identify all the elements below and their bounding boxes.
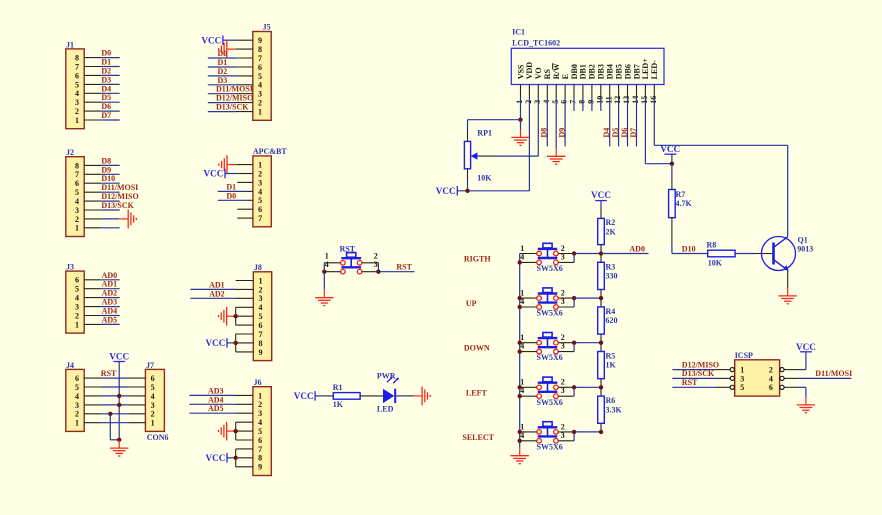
svg-text:2: 2	[769, 366, 773, 375]
svg-text:6: 6	[258, 63, 262, 72]
svg-text:D13/SCK: D13/SCK	[101, 201, 134, 210]
wire J3 pin 6 net AD0	[84, 279, 120, 281]
wire SW1 right rail	[573, 254, 575, 263]
net label D2	[218, 67, 228, 76]
APC&BT pin numbers	[258, 161, 262, 224]
junction ladder row 5	[599, 430, 603, 434]
ground below keypad	[511, 448, 529, 464]
connector ICSP	[735, 351, 780, 396]
svg-text:3: 3	[75, 98, 79, 107]
rotated net label D5 on IC1 pin 12	[611, 128, 620, 138]
power VCC above R7	[660, 144, 680, 164]
svg-text:R3: R3	[606, 262, 616, 271]
resistor R2	[598, 218, 605, 244]
junction J6 pin 5	[234, 429, 238, 433]
connector J5	[253, 23, 271, 121]
resistor R7	[669, 190, 676, 218]
wire J8 pins 4-6 bracket to ground	[236, 307, 254, 325]
svg-text:PWR: PWR	[377, 371, 396, 380]
net label AD0	[629, 244, 645, 253]
net label D6	[101, 102, 111, 111]
wire J2 pin 6 net D10	[84, 182, 120, 184]
svg-text:DOWN: DOWN	[464, 344, 490, 353]
junction SW3 left bottom	[518, 349, 522, 353]
svg-text:7: 7	[258, 214, 262, 223]
net label D0	[101, 49, 111, 58]
junction SW4 left top	[518, 385, 522, 389]
svg-text:5: 5	[75, 188, 79, 197]
wire SW1 to ladder	[574, 253, 601, 255]
wire J1 pin 1 net D7	[84, 119, 120, 121]
svg-text:RP1: RP1	[477, 129, 492, 138]
svg-text:D6: D6	[101, 102, 111, 111]
svg-text:1: 1	[258, 391, 262, 400]
resistor R1	[333, 393, 360, 400]
ground below Q1	[779, 288, 797, 304]
svg-text:LCD_TC1602: LCD_TC1602	[512, 38, 560, 47]
SW2 pin numbers	[520, 289, 565, 307]
svg-text:D9: D9	[101, 165, 111, 174]
svg-text:SW5X6: SW5X6	[537, 398, 563, 407]
wire SW3 to ladder	[574, 342, 601, 344]
svg-text:2K: 2K	[606, 227, 617, 236]
svg-text:AD3: AD3	[208, 386, 224, 395]
svg-text:10: 10	[595, 96, 604, 104]
net label D3	[101, 75, 111, 84]
junction SW2 left top	[518, 296, 522, 300]
ICSP pin circles	[730, 368, 784, 390]
svg-text:R/W: R/W	[552, 63, 561, 79]
rotated net label D7 on IC1 pin 14	[629, 128, 638, 138]
label R3	[606, 262, 616, 271]
wire SW2 right rail	[573, 298, 575, 307]
pushbutton SW3 DOWN SW5X6	[520, 333, 574, 354]
wire APC&BT pin 7 stub	[237, 217, 253, 219]
svg-text:RS: RS	[543, 69, 552, 80]
net label D11/MOSI	[101, 183, 138, 192]
wire J2 pin 3 net D13/SCK	[84, 209, 120, 211]
svg-text:SW5X6: SW5X6	[537, 309, 563, 318]
junction J8 pin 5	[234, 314, 238, 318]
svg-text:ICSP: ICSP	[735, 351, 753, 360]
junction ladder row 2	[599, 296, 603, 300]
svg-text:3: 3	[374, 260, 378, 269]
IC U1 LCD_TC1602	[511, 28, 664, 85]
wire ladder segment 3	[600, 343, 602, 388]
J7 pin numbers	[151, 374, 155, 428]
svg-text:J8: J8	[254, 263, 262, 272]
svg-text:14: 14	[631, 96, 640, 104]
wire ladder segment 2	[600, 298, 602, 343]
svg-text:4: 4	[258, 418, 262, 427]
svg-text:VO: VO	[534, 67, 543, 79]
wire ICSP pin 3 net D13/SCK	[672, 377, 730, 379]
svg-text:APC&BT: APC&BT	[253, 147, 287, 156]
svg-text:D4: D4	[602, 128, 611, 138]
svg-text:9: 9	[258, 36, 262, 45]
label 10K	[708, 259, 723, 268]
svg-text:2: 2	[258, 400, 262, 409]
svg-text:3: 3	[258, 90, 262, 99]
wire J8 pin 3 net AD2	[190, 297, 253, 299]
pushbutton SW4 LEFT SW5X6	[520, 377, 574, 398]
label SW5X6 (SELECT)	[537, 442, 563, 451]
svg-text:3: 3	[258, 409, 262, 418]
svg-text:6: 6	[560, 100, 569, 104]
junction SW3 left top	[518, 341, 522, 345]
wire J1 pin 8 net D0	[84, 57, 120, 59]
wire J2 pin 1 stub	[84, 227, 120, 229]
power VCC at ICSP pin 2	[796, 342, 816, 352]
label R7	[676, 190, 686, 199]
svg-text:D10: D10	[682, 244, 696, 253]
svg-text:R2: R2	[606, 218, 616, 227]
wire J5 pin 4 net D3	[208, 84, 253, 86]
rotated net label D6 on IC1 pin 13	[620, 128, 629, 138]
svg-text:D12/MISO: D12/MISO	[216, 94, 253, 103]
svg-text:11: 11	[604, 96, 613, 104]
svg-text:6: 6	[151, 374, 155, 383]
svg-text:3: 3	[75, 401, 79, 410]
wire IC1 pin 13	[627, 85, 629, 147]
label CON6	[147, 433, 169, 442]
LED PWR diode	[383, 377, 399, 404]
svg-text:AD5: AD5	[208, 404, 224, 413]
net label AD1	[209, 280, 225, 289]
ground right of LED	[413, 387, 430, 406]
net label AD3	[102, 298, 118, 307]
wire IC1 pin 15	[644, 85, 646, 164]
wire J4 pin 3 to J7 pin 3	[84, 404, 145, 406]
pushbutton RST switch	[324, 245, 378, 275]
label SW5X6 (RIGTH)	[537, 264, 563, 273]
net label D8	[101, 156, 111, 165]
wire VCC to R1	[315, 395, 333, 397]
net label D13/SCK	[682, 369, 715, 378]
svg-text:D2: D2	[101, 66, 111, 75]
net label AD0	[102, 271, 118, 280]
net label RST	[101, 369, 117, 378]
ground at J6 pin 5	[219, 422, 236, 441]
wire VCC to R2	[600, 201, 602, 219]
wire J5 pin 1 net D13/SCK	[208, 111, 253, 113]
svg-text:6: 6	[259, 321, 263, 330]
resistor R4	[598, 307, 605, 334]
svg-text:9: 9	[258, 463, 262, 472]
rotated net label D8 on IC1 pin 4	[540, 128, 549, 138]
wire IC1 pin 6	[564, 85, 566, 147]
svg-text:5: 5	[258, 72, 262, 81]
svg-text:10K: 10K	[477, 174, 492, 183]
svg-text:D5: D5	[101, 93, 111, 102]
svg-text:SELECT: SELECT	[462, 433, 494, 442]
svg-text:J3: J3	[66, 263, 74, 272]
net label AD4	[208, 395, 224, 404]
svg-text:D7: D7	[629, 128, 638, 138]
label 4.7K	[676, 199, 693, 208]
svg-text:6: 6	[75, 179, 79, 188]
svg-text:1K: 1K	[333, 400, 344, 409]
label 1K	[606, 361, 617, 370]
wire net RST	[378, 271, 414, 273]
junction RST right	[376, 270, 380, 274]
svg-text:D13/SCK: D13/SCK	[216, 103, 249, 112]
net label RIGTH	[464, 255, 491, 264]
wire J4 pin 2 branch to ground	[110, 414, 119, 440]
wire J5 pin 3 net D11/MOSI	[208, 93, 253, 95]
svg-text:2: 2	[151, 410, 155, 419]
svg-text:D1: D1	[101, 58, 111, 67]
svg-text:AD1: AD1	[102, 280, 118, 289]
svg-text:9013: 9013	[797, 245, 813, 254]
power VCC at APC&BT pin 2	[203, 169, 252, 179]
svg-text:RST: RST	[101, 369, 117, 378]
svg-text:D9: D9	[558, 128, 567, 138]
wire APC&BT pin 4 net D1	[218, 190, 253, 192]
svg-text:VCC: VCC	[109, 351, 129, 361]
connector J1	[66, 40, 84, 128]
junction SW3 right	[572, 341, 576, 345]
ground at J5 pin 8	[219, 40, 236, 59]
resistor R5	[598, 352, 605, 379]
svg-text:D8: D8	[540, 128, 549, 138]
svg-text:LED+: LED+	[641, 58, 650, 79]
junction ladder row 3	[599, 341, 603, 345]
svg-text:D1: D1	[218, 58, 228, 67]
svg-text:AD2: AD2	[102, 289, 118, 298]
wire IC1 pin 4	[546, 85, 548, 147]
svg-text:5: 5	[258, 196, 262, 205]
svg-text:DB6: DB6	[623, 64, 632, 79]
svg-text:1: 1	[75, 224, 79, 233]
svg-text:5: 5	[258, 427, 262, 436]
svg-text:3: 3	[151, 401, 155, 410]
wire IC1 pin 11	[609, 85, 611, 147]
wire ladder segment 1	[600, 254, 602, 299]
svg-text:RST: RST	[396, 263, 412, 272]
connector J8	[253, 263, 271, 361]
svg-text:J5: J5	[263, 23, 271, 32]
svg-text:D8: D8	[101, 156, 111, 165]
wire IC1 pin 1 to RP1 top	[468, 120, 521, 142]
junction ladder row 4	[599, 385, 603, 389]
RST switch pin numbers	[325, 252, 378, 269]
wire IC1 pin 3	[537, 85, 539, 157]
wire ladder segment 4	[600, 387, 602, 432]
svg-text:D7: D7	[101, 111, 111, 120]
svg-text:6: 6	[258, 205, 262, 214]
wire J5 pin 7 net D0	[208, 57, 253, 59]
svg-text:5: 5	[75, 383, 79, 392]
label R8	[707, 240, 717, 249]
connector J2	[66, 148, 84, 236]
IC1 pin numbers	[515, 96, 658, 104]
wire J3 pin 1 net AD5	[84, 323, 120, 325]
net label D12/MISO	[216, 94, 253, 103]
wire ICSP pin 4 net D11/MOSI	[784, 377, 851, 379]
svg-text:VDD: VDD	[525, 62, 534, 80]
net label D1	[218, 58, 228, 67]
J6 pin numbers	[258, 391, 262, 471]
svg-text:VCC: VCC	[205, 453, 225, 463]
net label RST	[682, 378, 698, 387]
svg-text:D10: D10	[101, 174, 115, 183]
svg-text:12: 12	[613, 96, 622, 104]
wire IC1 pin 5	[555, 85, 557, 149]
wire APC&BT pin 3 stub	[237, 181, 253, 183]
svg-text:5: 5	[75, 285, 79, 294]
svg-text:J7: J7	[146, 361, 154, 370]
svg-text:4: 4	[75, 294, 79, 303]
J3 pin numbers	[75, 276, 79, 330]
net label D11/MOSI	[216, 85, 253, 94]
junction J4 pin 4	[117, 394, 121, 398]
svg-text:3: 3	[561, 342, 565, 351]
pushbutton SW2 UP SW5X6	[520, 288, 574, 309]
pushbutton SW5 SELECT SW5X6	[520, 422, 574, 443]
wire SW2 to ladder	[574, 297, 601, 299]
svg-text:2: 2	[258, 99, 262, 108]
label 9013	[797, 245, 813, 254]
svg-text:15: 15	[640, 96, 649, 104]
SW3 pin numbers	[520, 333, 565, 351]
svg-text:4: 4	[259, 303, 263, 312]
svg-text:D13/SCK: D13/SCK	[682, 369, 715, 378]
svg-text:AD0: AD0	[102, 271, 118, 280]
wire R7 to net D10	[672, 218, 708, 254]
wire R1 to LED	[360, 395, 383, 397]
net label AD2	[209, 289, 225, 298]
svg-text:D1: D1	[226, 182, 236, 191]
connector J4	[66, 361, 84, 432]
J1 pin numbers	[75, 54, 79, 125]
svg-text:7: 7	[75, 62, 79, 71]
net label D0	[226, 191, 236, 200]
svg-text:3: 3	[75, 303, 79, 312]
svg-text:3: 3	[561, 252, 565, 261]
svg-text:UP: UP	[466, 299, 477, 308]
power VCC at J6 pin 8	[205, 453, 235, 463]
svg-text:LEFT: LEFT	[466, 388, 488, 397]
wire IC1 pin 1	[520, 85, 522, 120]
svg-text:3: 3	[561, 431, 565, 440]
wire J8 pin 1 stub	[236, 280, 254, 282]
net label D1	[226, 182, 236, 191]
svg-text:D0: D0	[226, 191, 236, 200]
junction RST left	[322, 270, 326, 274]
svg-text:5: 5	[259, 312, 263, 321]
svg-text:3: 3	[258, 178, 262, 187]
net label AD1	[102, 280, 118, 289]
resistor R3	[598, 262, 605, 289]
wire IC1 pin 16 LED- to Q1 collector	[654, 145, 787, 236]
svg-text:D12/MISO: D12/MISO	[101, 192, 138, 201]
svg-text:620: 620	[606, 316, 618, 325]
svg-text:8: 8	[578, 100, 587, 104]
junction SW2 left bottom	[518, 305, 522, 309]
svg-text:IC1: IC1	[512, 28, 525, 37]
wire J2 pin 4 net D12/MISO	[84, 200, 120, 202]
svg-text:1: 1	[740, 366, 744, 375]
wire J6 pin 1 net AD3	[189, 394, 253, 396]
svg-text:6: 6	[258, 436, 262, 445]
wire Q1 emitter to ground	[787, 270, 789, 288]
svg-text:7: 7	[75, 170, 79, 179]
wire J4 pin 6 to J7 pin 6	[84, 377, 145, 379]
svg-text:5: 5	[75, 80, 79, 89]
net label D9	[101, 165, 111, 174]
net label D12/MISO	[682, 360, 719, 369]
wire J4 pin 5 to J7 pin 5	[84, 386, 145, 388]
wire J5 pin 8 to ground	[236, 48, 253, 50]
wire VCC node to R7	[671, 164, 673, 190]
net label D1	[101, 58, 111, 67]
junction SW1 right	[572, 251, 576, 255]
wire J1 pin 2 net D6	[84, 110, 120, 112]
svg-text:D2: D2	[218, 67, 228, 76]
svg-text:LED: LED	[377, 404, 394, 413]
label RP1	[477, 129, 492, 138]
label R6	[606, 396, 616, 405]
wire J2 pin 2 to ground	[84, 218, 119, 220]
junction SW5 left bottom	[518, 439, 522, 443]
net label AD4	[102, 307, 118, 316]
svg-text:J4: J4	[66, 361, 74, 370]
SW5 pin numbers	[520, 422, 565, 440]
wire APC&BT pin 5 net D0	[218, 199, 253, 201]
svg-text:R6: R6	[606, 396, 616, 405]
pushbutton SW1 RIGTH SW5X6	[520, 243, 574, 264]
connector J6	[253, 378, 271, 476]
net label D13/SCK	[101, 201, 134, 210]
wire RST left to ground	[323, 272, 325, 290]
svg-text:DB1: DB1	[579, 64, 588, 79]
svg-text:1: 1	[151, 419, 155, 428]
ground at J2 pin 2	[119, 210, 136, 229]
svg-text:D12/MISO: D12/MISO	[682, 360, 719, 369]
net label D11/MOSI	[815, 369, 852, 378]
potentiometer RP1	[464, 141, 477, 168]
wire RST switch left rail	[323, 263, 325, 272]
power VCC at J4/J7	[109, 351, 129, 361]
junction SW4 left bottom	[518, 394, 522, 398]
net label AD2	[102, 289, 118, 298]
svg-text:VCC: VCC	[796, 342, 816, 352]
junction ladder row 1	[599, 251, 603, 255]
wire J1 pin 6 net D2	[84, 74, 120, 76]
wire SW4 to ladder	[574, 386, 601, 388]
svg-text:SW5X6: SW5X6	[537, 353, 563, 362]
wire J5 pin 6 net D1	[208, 66, 253, 68]
svg-text:E: E	[561, 74, 570, 79]
svg-text:4: 4	[258, 187, 262, 196]
label 1K	[333, 400, 344, 409]
svg-text:4: 4	[542, 100, 551, 104]
net label D2	[101, 66, 111, 75]
power VCC at RP1	[436, 186, 458, 196]
svg-text:R7: R7	[676, 190, 686, 199]
svg-text:1: 1	[515, 100, 524, 104]
svg-text:AD0: AD0	[629, 244, 645, 253]
resistor R8	[708, 250, 735, 257]
svg-text:5: 5	[740, 383, 744, 392]
ground at IC1 pin 1	[511, 120, 529, 146]
svg-text:D11/MOSI: D11/MOSI	[815, 369, 852, 378]
svg-text:AD2: AD2	[209, 289, 225, 298]
net label D13/SCK	[216, 103, 249, 112]
label 330	[606, 272, 618, 281]
wire ICSP pin 1 net D12/MISO	[672, 369, 730, 371]
